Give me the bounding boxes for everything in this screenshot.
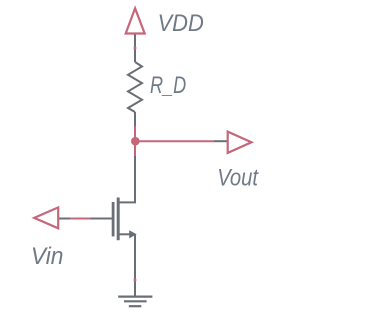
svg-text:Vin: Vin [31, 243, 64, 270]
gate wire (gray part to gate) [91, 218, 113, 220]
resistor R_D [128, 62, 142, 112]
svg-text:R_D: R_D [150, 72, 186, 99]
ground symbol bar 2 [124, 300, 147, 302]
transistor M1 channel bar [117, 198, 120, 241]
wire VDD to resistor [134, 35, 136, 63]
Vout port symbol [228, 132, 252, 153]
wire node to Vout port (pink part) [135, 140, 214, 142]
gate wire (pink part) [70, 218, 90, 220]
wire node to drain [119, 156, 136, 202]
wire resistor to node (pink part) [134, 126, 136, 156]
wire node to Vout port (gray part) [214, 140, 227, 142]
transistor M1 gate bar [112, 202, 115, 236]
node junction dot [131, 137, 140, 146]
source arrow [129, 230, 137, 238]
wire endpoint dot above ground [134, 279, 137, 282]
gate wire (gray part from port) [58, 218, 70, 220]
ground symbol bar 1 [118, 296, 152, 298]
wire endpoint dot [134, 47, 137, 50]
svg-text:VDD: VDD [158, 10, 204, 37]
source wire vertical [134, 234, 136, 296]
svg-text:Vout: Vout [217, 165, 259, 192]
wire resistor to node (gray part) [134, 112, 136, 126]
ground symbol bar 3 [129, 305, 142, 307]
VDD port symbol [126, 8, 145, 33]
source wire horizontal [119, 233, 131, 235]
Vin port symbol [34, 207, 58, 228]
